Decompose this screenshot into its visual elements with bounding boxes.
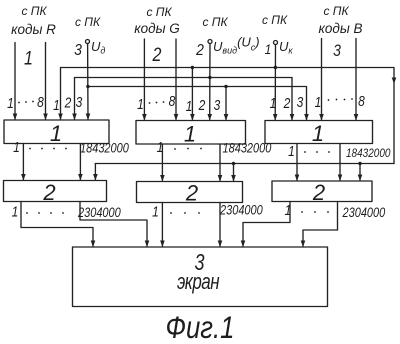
svg-text:1: 1 bbox=[312, 121, 324, 146]
node: Uвид terminal circle bbox=[208, 40, 212, 44]
wire: block 1 middle output 2 to block 2 middle bbox=[219, 144, 221, 181]
block 3 (screen / экран) bbox=[73, 247, 328, 307]
label: dots under middle block 1 bbox=[174, 148, 176, 150]
label: dots under left block 2 bbox=[26, 212, 28, 214]
svg-text:1: 1 bbox=[13, 139, 20, 155]
node: junction bus 4 / middle drop bbox=[232, 162, 235, 165]
svg-text:с ПК: с ПК bbox=[146, 5, 172, 19]
wire: block 1 left output 2 to block 2 left bbox=[79, 144, 81, 180]
node: junction of Uк wire and bus 1 bbox=[274, 66, 277, 69]
svg-text:2: 2 bbox=[185, 181, 198, 206]
block 1 (G channel converter) bbox=[136, 121, 246, 145]
node: junction of Uд wire and bus 3 bbox=[86, 85, 89, 88]
svg-text:коды R: коды R bbox=[11, 22, 56, 37]
block 2 (G channel) bbox=[137, 182, 243, 203]
wire: B code line 8 bbox=[355, 39, 357, 120]
block 1 (B channel converter) bbox=[265, 121, 373, 144]
svg-text:2: 2 bbox=[312, 180, 325, 205]
label: dots of R code bus bbox=[18, 102, 20, 104]
node: junction bus 4 / right drop bbox=[358, 162, 361, 165]
label: dots under right block 1 bbox=[304, 151, 306, 153]
wire: bus 1 (Uк) horizontal with left drop and right wrap bbox=[61, 68, 395, 164]
wire: R code line 8 bbox=[45, 43, 47, 120]
wire: block 2 middle output 1 to screen bbox=[161, 203, 163, 247]
wire: bus 4 left drop into block 2 left input 3 bbox=[94, 164, 96, 180]
wire: bus 1 drop to block 1 middle input 1 bbox=[191, 68, 193, 120]
svg-text:экран: экран bbox=[177, 270, 220, 295]
wire: inter-row bus 4 bbox=[95, 163, 394, 165]
block 1 (R channel converter) bbox=[4, 120, 109, 144]
svg-text:2304000: 2304000 bbox=[219, 202, 263, 217]
wire: bus 3 (Uд) horizontal bbox=[88, 87, 307, 120]
wire: block 2 right output 2 to screen bbox=[303, 202, 338, 247]
svg-text:8: 8 bbox=[37, 94, 44, 110]
svg-text:с ПК: с ПК bbox=[262, 13, 288, 27]
svg-text:2: 2 bbox=[195, 41, 204, 59]
wire: Uк vertical into block 1 right input 1 bbox=[274, 45, 276, 120]
svg-text:3: 3 bbox=[74, 41, 82, 59]
svg-text:1: 1 bbox=[186, 98, 193, 114]
svg-text:1: 1 bbox=[137, 96, 144, 112]
svg-text:Uк: Uк bbox=[279, 39, 293, 56]
node: Uк terminal circle bbox=[274, 41, 278, 45]
wire: Uвид vertical into block 1 middle input 2 bbox=[209, 44, 211, 120]
svg-text:Uвид(Uс): Uвид(Uс) bbox=[213, 35, 260, 56]
wire: bus 4 drop into block 2 right input 3 bbox=[359, 164, 361, 181]
wire: block 2 right output 1 to screen bbox=[243, 202, 290, 247]
svg-text:18432000: 18432000 bbox=[346, 147, 391, 160]
svg-text:1: 1 bbox=[265, 41, 272, 57]
svg-text:3: 3 bbox=[333, 42, 341, 60]
label: dots of B code bus bbox=[328, 99, 330, 101]
wire: block 1 left output 1 to block 2 left bbox=[22, 144, 24, 180]
svg-text:с ПК: с ПК bbox=[75, 15, 101, 29]
wire: block 2 left output 1 to screen bbox=[21, 202, 93, 247]
svg-text:1: 1 bbox=[50, 121, 62, 146]
svg-text:1: 1 bbox=[12, 203, 19, 219]
wire: bus 4 drop into block 2 middle input 3 bbox=[233, 164, 235, 181]
svg-text:8: 8 bbox=[169, 93, 176, 109]
svg-text:2: 2 bbox=[42, 180, 55, 205]
wire: block 1 right output 2 to block 2 right bbox=[339, 144, 341, 181]
svg-text:18432000: 18432000 bbox=[223, 140, 272, 155]
label: dots under left block 1 bbox=[29, 148, 31, 150]
svg-text:1: 1 bbox=[315, 94, 322, 110]
wire: R code line 1 bbox=[14, 43, 16, 120]
block 2 (B channel) bbox=[272, 181, 372, 202]
label: dots under right block 2 bbox=[301, 211, 303, 213]
svg-text:1: 1 bbox=[184, 122, 196, 147]
svg-text:с ПК: с ПК bbox=[323, 4, 349, 18]
svg-text:2304000: 2304000 bbox=[342, 205, 386, 220]
svg-text:с ПК: с ПК bbox=[21, 4, 47, 18]
svg-text:2: 2 bbox=[64, 94, 72, 110]
wire: G code line 8 bbox=[175, 39, 177, 120]
block 2 (R channel) bbox=[4, 181, 107, 202]
svg-text:2: 2 bbox=[198, 97, 206, 113]
svg-text:1: 1 bbox=[7, 95, 14, 111]
wire: bus 3 drop to block 1 middle input 3 bbox=[225, 87, 227, 120]
svg-text:3: 3 bbox=[297, 94, 304, 110]
wire: G code line 1 bbox=[143, 39, 145, 120]
wire: block 2 middle output 2 to screen bbox=[219, 203, 221, 247]
svg-text:Uд: Uд bbox=[91, 39, 105, 56]
svg-text:3: 3 bbox=[214, 97, 221, 113]
wire: bus 2 (Uвид) horizontal bbox=[75, 78, 293, 120]
svg-text:3: 3 bbox=[76, 94, 83, 110]
node: Uд terminal circle bbox=[86, 40, 90, 44]
label: dots of G code bus bbox=[149, 102, 151, 104]
svg-text:с ПК: с ПК bbox=[202, 15, 228, 29]
svg-text:коды G: коды G bbox=[134, 21, 180, 36]
svg-text:1: 1 bbox=[53, 97, 60, 113]
svg-text:коды B: коды B bbox=[318, 21, 362, 36]
wire: mid-line arrow on bus 1 wrap vertical bbox=[392, 78, 397, 85]
label: dots under middle block 2 bbox=[170, 212, 172, 214]
wire: block 1 middle output 1 to block 2 middle bbox=[161, 144, 163, 181]
svg-text:2304000: 2304000 bbox=[77, 205, 121, 220]
svg-text:1: 1 bbox=[270, 95, 277, 111]
svg-text:1: 1 bbox=[152, 203, 159, 219]
svg-text:1: 1 bbox=[24, 47, 33, 69]
wire: B code line 1 bbox=[321, 39, 323, 120]
svg-text:2: 2 bbox=[283, 95, 291, 111]
svg-text:Фиг.1: Фиг.1 bbox=[166, 311, 235, 344]
wire: block 2 left output 2 to screen bbox=[80, 202, 147, 247]
node: junction bus 1 / middle drop bbox=[191, 66, 194, 69]
node: junction bus 3 / middle drop bbox=[224, 85, 227, 88]
wire: Uд vertical into block 1 left input 3 bbox=[87, 44, 89, 120]
svg-text:18432000: 18432000 bbox=[80, 140, 129, 155]
wire: block 1 right output 1 to block 2 right bbox=[296, 144, 298, 181]
svg-text:8: 8 bbox=[358, 93, 365, 109]
node: junction of Uвид wire and bus 2 bbox=[208, 76, 211, 79]
svg-text:2: 2 bbox=[152, 44, 162, 66]
svg-text:1: 1 bbox=[288, 143, 295, 159]
